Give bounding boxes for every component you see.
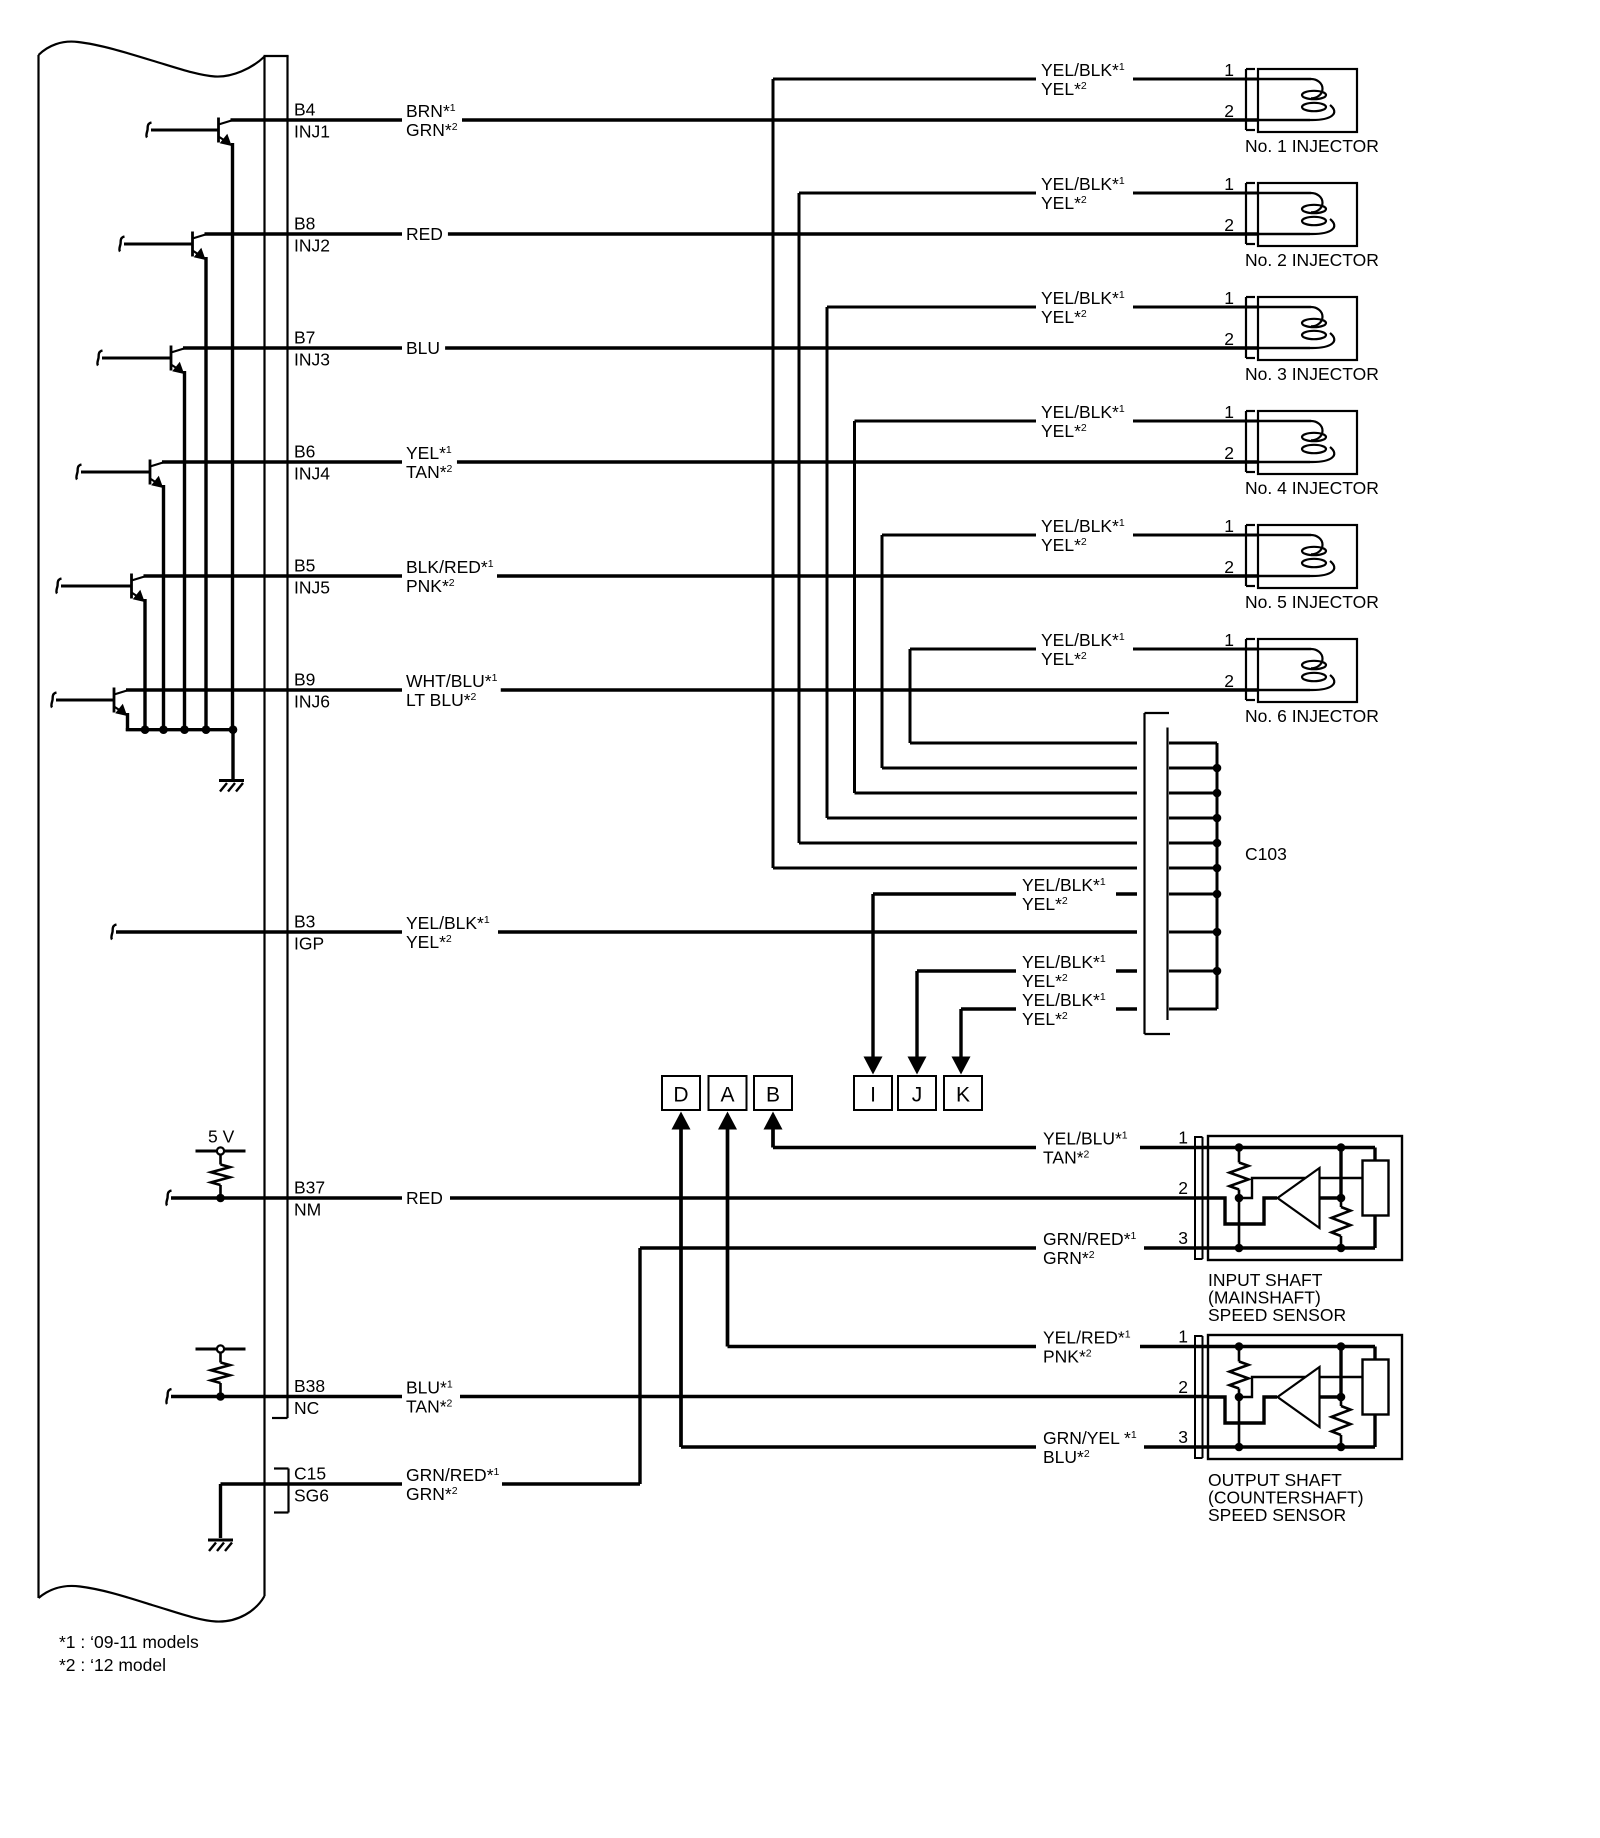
svg-text:SPEED SENSOR: SPEED SENSOR [1208,1505,1346,1525]
wire B3 IGP (right segment) [498,930,1137,933]
svg-text:PNK*2: PNK*2 [406,576,455,596]
label INPUT SHAFT (MAINSHAFT) SPEED SENSOR [1208,1270,1346,1325]
wire B37 NM (left segment) [166,1191,402,1206]
input shaft sensor ground rail (pin 3) [1209,1246,1375,1249]
wire C103 to K (left segment) [961,1007,1016,1010]
wire injector 5 pin-1 feed to C103 [882,535,1137,768]
wire colour label YEL/BLK*1 YEL*2 (inj 5) [1041,516,1125,555]
wire colour label YEL/BLK*1 YEL*2 (K) [1022,990,1106,1029]
wire B8 to injector 2 pin 2 (left segment) [205,232,403,235]
svg-text:YEL/BLK*1: YEL/BLK*1 [1041,630,1125,650]
wire colour label YEL/BLK*1 YEL*2 (inj 2) [1041,174,1125,213]
wire C103 to J (right segment) [1116,969,1137,972]
wire injector 6 pin-1 feed to C103 [910,649,1137,743]
svg-text:BLU*1: BLU*1 [406,1378,453,1398]
svg-text:YEL/BLK*1: YEL/BLK*1 [1041,402,1125,422]
svg-text:SPEED SENSOR: SPEED SENSOR [1208,1305,1346,1325]
svg-text:INJ3: INJ3 [294,350,330,370]
label No. 6 INJECTOR [1245,706,1379,726]
transistor Q3 (injector driver INJ3) [97,346,184,732]
wire C103 row 4 to bus [1169,792,1217,795]
wire input sensor pin3 (right segment) [1144,1246,1209,1249]
pin number 2 (input sensor) [1178,1178,1188,1198]
svg-text:1: 1 [1178,1327,1188,1347]
label No. 1 INJECTOR [1245,136,1379,156]
wire destination B to input sensor pin 1 [764,1112,1037,1148]
svg-text:2: 2 [1224,329,1234,349]
svg-text:3: 3 [1178,1427,1188,1447]
junction emitter rail x=206 [202,725,211,734]
input shaft sensor divider tap wire [1238,1198,1241,1248]
wire injector 4 pin 1 (right segment) [1133,420,1259,423]
svg-text:YEL/BLK*1: YEL/BLK*1 [1041,288,1125,308]
svg-text:1: 1 [1224,630,1234,650]
connector section B bottom hook [272,1417,288,1419]
pin number 1 (injector 3) [1224,288,1234,308]
svg-text:I: I [870,1084,876,1107]
input shaft sensor right resistor (zigzag) [1332,1198,1351,1248]
svg-text:BLU*2: BLU*2 [1043,1447,1090,1467]
connector bracket (injector 5) [1246,525,1255,586]
svg-text:*2 : ‘12 model: *2 : ‘12 model [59,1655,166,1675]
wire injector 1 pin 1 (right segment) [1133,78,1259,81]
input shaft speed sensor body [1208,1136,1402,1260]
svg-text:B7: B7 [294,328,315,348]
wire input sensor pin1 (right segment) [1140,1146,1209,1149]
svg-text:1: 1 [1178,1128,1188,1148]
wire colour label YEL/BLK*1 YEL*2 (IGP) [406,913,490,952]
wire SG6 riser to input sensor pin 3 [640,1248,1036,1484]
injector 2 coil [1257,193,1334,234]
svg-text:BLU: BLU [406,338,440,358]
input shaft sensor feedback wire [1239,1178,1363,1198]
op-amp U (input shaft sensor) [1278,1168,1320,1228]
wire colour label YEL/BLK*1 YEL*2 (inj 3) [1041,288,1125,327]
svg-text:YEL*2: YEL*2 [1041,421,1087,441]
junction emitter rail x=163.5 [159,725,168,734]
junction input shaft sensor pin1/left resistor [1235,1143,1244,1152]
svg-text:B: B [766,1084,780,1107]
junction C103 bus y=793 [1213,789,1222,798]
wire colour label RED (B37) [406,1188,443,1208]
injector 2 body [1258,183,1357,246]
label No. 4 INJECTOR [1245,478,1379,498]
svg-text:INJ4: INJ4 [294,464,330,484]
svg-text:INJ5: INJ5 [294,578,330,598]
ECM/PCM block outline (torn edges) [39,42,265,1622]
injector 1 body [1258,69,1357,132]
wire B7 to injector 3 pin 2 (left segment) [183,346,402,349]
wire injector 6 pin 1 (right segment) [1133,648,1259,651]
junction C103 bus y=768 [1213,764,1222,773]
svg-text:YEL*2: YEL*2 [1041,79,1087,99]
junction C103 bus y=971 [1213,967,1222,976]
pin number 1 (injector 4) [1224,402,1234,422]
injector 6 coil [1257,649,1334,690]
wire C103 to K (right segment) [1116,1007,1137,1010]
junction input shaft sensor gnd/left [1235,1244,1244,1253]
wire B3 IGP (left segment) [111,925,402,940]
injector 3 coil [1257,307,1334,348]
svg-text:BRN*1: BRN*1 [406,101,456,121]
wire B6 to injector 4 pin 2 (right segment) [457,460,1259,463]
pin number 1 (injector 1) [1224,60,1234,80]
pin label B4/INJ1 [294,100,330,142]
wire B9 to injector 6 pin 2 (left segment) [126,688,402,691]
pin number 2 (output sensor) [1178,1377,1188,1397]
wire B37 NM to input sensor pin 2 [450,1196,1227,1199]
svg-text:INJ2: INJ2 [294,236,330,256]
wire B5 to injector 5 pin 2 (right segment) [497,574,1259,577]
junction C103 bus y=818 [1213,814,1222,823]
svg-text:YEL*2: YEL*2 [1041,193,1087,213]
wire C15 SG6 (right segment) [502,1482,640,1485]
wire C103 row 3 to bus [1169,817,1217,820]
svg-text:YEL/BLU*1: YEL/BLU*1 [1043,1129,1128,1149]
svg-text:GRN*2: GRN*2 [1043,1248,1095,1268]
output shaft sensor load resistor (box) [1363,1360,1389,1415]
injector 6 body [1258,639,1357,702]
transistor Q4 (injector driver INJ4) [76,460,163,732]
op-amp U (output shaft sensor) [1278,1367,1320,1427]
wire B4 to injector 1 pin 2 (left segment) [231,118,403,121]
wire B4 to injector 1 pin 2 (right segment) [462,118,1259,121]
wire down to destination I [864,894,883,1075]
wire colour label RED [406,224,443,244]
junction output shaft sensor bus mid [1337,1393,1346,1402]
wire B38 NC to output sensor pin 2 [460,1395,1227,1398]
wire injector 4 pin-1 feed to C103 [855,421,1138,793]
ground G1 (injector drivers) [219,781,244,792]
ground G2 (sensor ground SG6) [208,1540,233,1551]
output shaft sensor op-amp output tap [1320,1395,1342,1398]
pin number 1 (injector 2) [1224,174,1234,194]
svg-text:BLK/RED*1: BLK/RED*1 [406,557,494,577]
ECM connector strip right line (section B) [286,56,288,1418]
wire colour label YEL/BLK*1 YEL*2 (inj 1) [1041,60,1125,99]
svg-text:1: 1 [1224,288,1234,308]
wire B38 NC (left segment) [166,1389,402,1404]
svg-text:1: 1 [1224,516,1234,536]
svg-text:SG6: SG6 [294,1486,329,1506]
pin number 1 (output sensor) [1178,1327,1188,1347]
ECM connector strip left line [263,56,265,1596]
svg-text:D: D [673,1084,688,1107]
svg-text:NM: NM [294,1200,321,1220]
junction input shaft sensor bus top [1337,1143,1346,1152]
svg-text:YEL*2: YEL*2 [406,932,452,952]
junction C103 bus y=843 [1213,839,1222,848]
wire injector 3 pin 1 (left segment) [827,306,1036,309]
svg-text:YEL/BLK*1: YEL/BLK*1 [1041,174,1125,194]
footnote *1 *2 [59,1632,199,1675]
pin number 2 (injector 4) [1224,443,1234,463]
svg-text:No. 6 INJECTOR: No. 6 INJECTOR [1245,706,1379,726]
svg-text:B38: B38 [294,1376,325,1396]
destination box B [754,1076,792,1110]
input shaft sensor load resistor (box) [1363,1161,1389,1216]
pin number 2 (injector 2) [1224,215,1234,235]
svg-text:2: 2 [1224,671,1234,691]
junction input shaft sensor bus mid [1337,1194,1346,1203]
svg-text:B5: B5 [294,556,315,576]
label No. 2 INJECTOR [1245,250,1379,270]
output shaft sensor bus vertical [1339,1347,1342,1398]
svg-text:No. 4 INJECTOR: No. 4 INJECTOR [1245,478,1379,498]
wire injector 2 pin 1 (left segment) [799,192,1036,195]
destination box J [898,1076,936,1110]
5V supply rail (B37) [196,1147,246,1154]
svg-text:YEL*2: YEL*2 [1022,894,1068,914]
svg-text:B3: B3 [294,912,315,932]
common emitter rail wire [126,728,233,731]
transistor Q5 (injector driver INJ5) [56,574,145,732]
svg-text:No. 2 INJECTOR: No. 2 INJECTOR [1245,250,1379,270]
wire colour label WHT/BLU/LT BLU [406,671,498,710]
svg-text:YEL/RED*1: YEL/RED*1 [1043,1328,1131,1348]
junction input shaft sensor left tap [1235,1194,1244,1203]
svg-text:PNK*2: PNK*2 [1043,1347,1092,1367]
5V supply rail (B38) [196,1345,246,1352]
wire colour label BLK/RED/PNK [406,557,494,596]
wire colour label GRN/RED*1 GRN*2 (SG6) [406,1465,500,1504]
svg-text:YEL*2: YEL*2 [1041,649,1087,669]
svg-text:WHT/BLU*1: WHT/BLU*1 [406,671,498,691]
output shaft sensor load resistor to ground rail [1373,1415,1376,1448]
wire B6 to injector 4 pin 2 (left segment) [162,460,402,463]
wire C15 SG6 (left segment) [221,1482,403,1485]
junction input shaft sensor bus bottom [1337,1244,1346,1253]
destination box A [709,1076,747,1110]
connector C103 bracket [1145,713,1171,1034]
svg-text:YEL/BLK*1: YEL/BLK*1 [1041,516,1125,536]
svg-text:GRN/RED*1: GRN/RED*1 [1043,1229,1137,1249]
wire C103 I row to bus [1169,893,1217,896]
junction emitter rail x=145 [141,725,150,734]
connector bracket (injector 4) [1246,411,1255,472]
svg-text:C103: C103 [1245,844,1287,864]
injector 3 body [1258,297,1357,360]
wire injector 3 pin 1 (right segment) [1133,306,1259,309]
svg-text:YEL/BLK*1: YEL/BLK*1 [1041,60,1125,80]
wire destination D to output sensor pin 3 [672,1112,1037,1448]
pin label B3/IGP [294,912,324,954]
junction R1 to B37 wire [216,1194,225,1203]
wire injector 4 pin 1 (left segment) [855,420,1037,423]
svg-text:A: A [720,1084,734,1107]
output shaft sensor power rail (pin 1) [1209,1347,1375,1360]
pin number 2 (injector 1) [1224,101,1234,121]
wire B8 to injector 2 pin 2 (right segment) [448,232,1259,235]
junction output shaft sensor bus top [1337,1342,1346,1351]
input shaft sensor bus vertical [1339,1148,1342,1199]
svg-text:NC: NC [294,1398,319,1418]
label C103 [1245,844,1287,864]
pin label B9/INJ6 [294,670,330,712]
wire colour label YEL/BLU*1 TAN*2 (input pin 1) [1043,1129,1128,1168]
wire C103 K row to bus [1169,1008,1217,1011]
junction R2 to B38 wire [216,1392,225,1401]
svg-text:No. 3 INJECTOR: No. 3 INJECTOR [1245,364,1379,384]
wire colour label YEL/BLK*1 YEL*2 (I) [1022,875,1106,914]
wire injector 2 pin 1 (right segment) [1133,192,1259,195]
junction output shaft sensor pin1/left resistor [1235,1342,1244,1351]
wire output sensor pin3 (right segment) [1144,1445,1209,1448]
pin number 2 (injector 5) [1224,557,1234,577]
input shaft sensor op-amp output tap [1320,1196,1342,1199]
wire C103 row 2 to bus [1169,842,1217,845]
ECM connector strip top cap [264,55,289,57]
svg-text:GRN*2: GRN*2 [406,1484,458,1504]
svg-text:C15: C15 [294,1464,326,1484]
C103 output bus wire [1216,743,1219,1009]
svg-text:J: J [912,1084,923,1107]
injector 4 body [1258,411,1357,474]
wire C103 to I (right segment) [1116,892,1137,895]
wire C103 row 6 to bus [1169,742,1217,745]
resistor R2 (B38 pull-up) [211,1353,230,1397]
injector 4 coil [1257,421,1334,462]
wire injector 2 pin-1 feed to C103 [799,193,1137,843]
wire SG6 ground riser [219,1484,222,1538]
pin number 1 (input sensor) [1178,1128,1188,1148]
svg-text:YEL*1: YEL*1 [406,443,452,463]
pin label B7/INJ3 [294,328,330,370]
wire B9 to injector 6 pin 2 (right segment) [501,688,1259,691]
connector bracket (input shaft speed sensor) [1195,1136,1203,1260]
junction C103 bus y=932 [1213,928,1222,937]
svg-text:3: 3 [1178,1228,1188,1248]
wire C103 J row to bus [1169,970,1217,973]
connector C103 inner bar [1166,728,1168,1021]
connector bracket (output shaft speed sensor) [1195,1335,1203,1459]
wire down to destination K [952,1009,971,1075]
svg-text:2: 2 [1224,443,1234,463]
wire injector 6 pin 1 (left segment) [910,648,1036,651]
output shaft sensor bias resistor (zigzag left) [1230,1347,1249,1398]
svg-text:INJ1: INJ1 [294,122,330,142]
svg-text:RED: RED [406,1188,443,1208]
wire colour label GRN/YEL*1 BLU*2 (output pin 3) [1043,1428,1137,1467]
label No. 5 INJECTOR [1245,592,1379,612]
label 5 V [208,1127,235,1147]
pin number 1 (injector 5) [1224,516,1234,536]
wire injector 5 pin 1 (left segment) [882,534,1036,537]
output shaft sensor right resistor (zigzag) [1332,1397,1351,1447]
resistor R1 (B37 pull-up) [211,1155,230,1198]
wire colour label YEL/RED*1 PNK*2 (output pin 1) [1043,1328,1131,1367]
junction output shaft sensor left tap [1235,1393,1244,1402]
wire colour label GRN/RED*1 GRN*2 (input pin 3) [1043,1229,1137,1268]
wire C103 row 1 to bus [1169,867,1217,870]
wire colour label YEL/BLK*1 YEL*2 (inj 6) [1041,630,1125,669]
svg-text:YEL/BLK*1: YEL/BLK*1 [1022,952,1106,972]
connector bracket (injector 2) [1246,183,1255,244]
pin number 3 (input sensor) [1178,1228,1188,1248]
wire colour label YEL/BLK*1 YEL*2 (J) [1022,952,1106,991]
svg-text:2: 2 [1178,1178,1188,1198]
svg-text:2: 2 [1224,557,1234,577]
wire colour label BLU*1 TAN*2 (B38) [406,1378,453,1417]
wire injector 3 pin-1 feed to C103 [827,307,1137,818]
svg-text:YEL*2: YEL*2 [1022,1009,1068,1029]
pin label B6/INJ4 [294,442,330,484]
junction output shaft sensor gnd/left [1235,1443,1244,1452]
svg-text:TAN*2: TAN*2 [1043,1148,1090,1168]
svg-text:TAN*2: TAN*2 [406,1397,453,1417]
wire C103 to I (left segment) [873,892,1016,895]
wire colour label BLU [406,338,440,358]
connector bracket (injector 1) [1246,69,1255,130]
wire colour label BRN/GRN [406,101,458,140]
svg-text:2: 2 [1224,101,1234,121]
label OUTPUT SHAFT (COUNTERSHAFT) SPEED SENSOR [1208,1470,1364,1525]
wire colour label YEL/TAN [406,443,453,482]
svg-text:B8: B8 [294,214,315,234]
transistor Q1 (injector driver INJ1) [146,118,232,732]
wire B7 to injector 3 pin 2 (right segment) [445,346,1259,349]
input shaft sensor bias resistor (zigzag left) [1230,1148,1249,1199]
injector 1 coil [1257,79,1334,120]
svg-text:GRN/RED*1: GRN/RED*1 [406,1465,500,1485]
wire injector 1 pin 1 (left segment) [773,78,1036,81]
output shaft speed sensor body [1208,1335,1402,1459]
destination box K [944,1076,982,1110]
input shaft sensor power rail (pin 1) [1209,1148,1375,1161]
injector 5 body [1258,525,1357,588]
wire B5 to injector 5 pin 2 (left segment) [144,574,403,577]
svg-text:5 V: 5 V [208,1127,235,1147]
pin number 3 (output sensor) [1178,1427,1188,1447]
svg-text:No. 5 INJECTOR: No. 5 INJECTOR [1245,592,1379,612]
output shaft sensor divider tap wire [1238,1397,1241,1447]
svg-text:B6: B6 [294,442,315,462]
svg-text:YEL/BLK*1: YEL/BLK*1 [1022,875,1106,895]
svg-text:K: K [956,1084,970,1107]
junction output shaft sensor bus bottom [1337,1443,1346,1452]
svg-text:B4: B4 [294,100,316,120]
svg-text:1: 1 [1224,60,1234,80]
pin number 1 (injector 6) [1224,630,1234,650]
junction C103 bus y=894 [1213,890,1222,899]
svg-text:B37: B37 [294,1178,325,1198]
wire rail to ground [231,730,234,779]
pin label C15/SG6 [294,1464,329,1506]
svg-text:YEL*2: YEL*2 [1022,971,1068,991]
destination box D [662,1076,700,1110]
pin number 2 (injector 6) [1224,671,1234,691]
output shaft sensor feedback wire [1239,1377,1363,1397]
svg-text:YEL/BLK*1: YEL/BLK*1 [1022,990,1106,1010]
input shaft sensor load resistor to ground rail [1373,1216,1376,1249]
output shaft sensor ground rail (pin 3) [1209,1445,1375,1448]
junction C103 bus y=868 [1213,864,1222,873]
connector bracket (injector 6) [1246,639,1255,700]
pin number 2 (injector 3) [1224,329,1234,349]
wire colour label YEL/BLK*1 YEL*2 (inj 4) [1041,402,1125,441]
svg-text:YEL*2: YEL*2 [1041,307,1087,327]
wire C103 row 5 to bus [1169,767,1217,770]
pin label B37/NM [294,1178,325,1220]
svg-text:2: 2 [1178,1377,1188,1397]
wire destination A to output sensor pin 1 [718,1112,1036,1347]
svg-text:B9: B9 [294,670,315,690]
wire injector 5 pin 1 (right segment) [1133,534,1259,537]
transistor Q6 (injector driver INJ6) [51,688,127,732]
svg-text:1: 1 [1224,402,1234,422]
junction emitter rail right corner [229,725,238,734]
wire C103 IGP row to bus [1169,931,1217,934]
